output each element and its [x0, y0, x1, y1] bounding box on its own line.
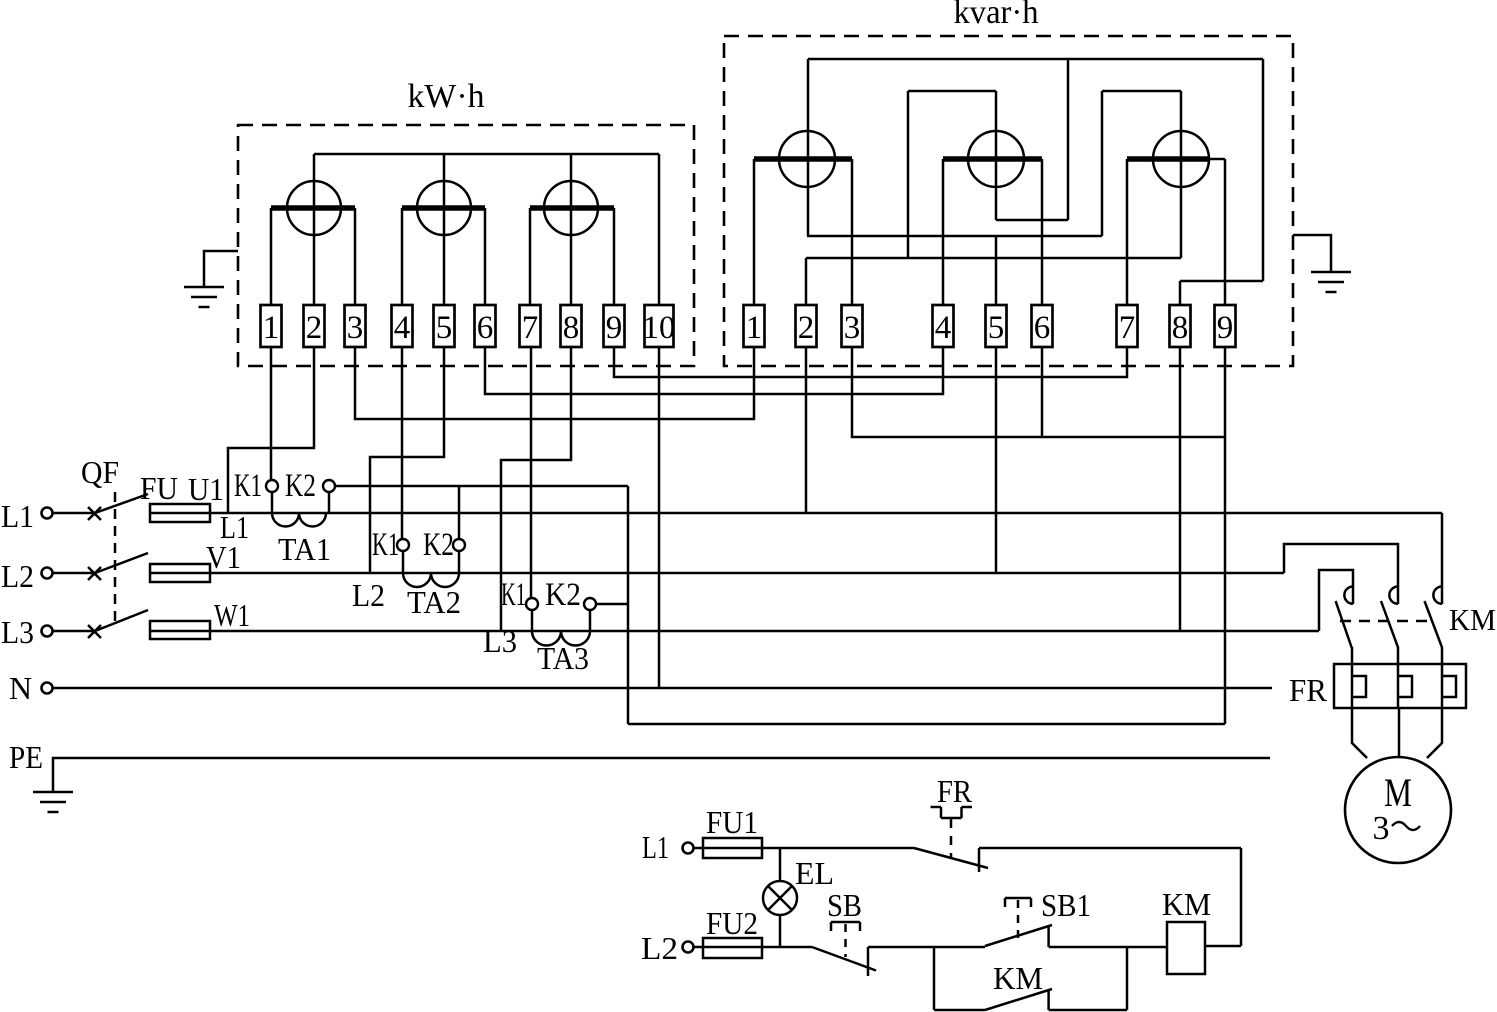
wire L2 to QF — [53, 572, 95, 575]
svg-text:N: N — [9, 670, 32, 706]
wire KM pole 3 to FR — [1441, 647, 1444, 664]
L3 line — [210, 630, 1319, 633]
svg-text:5: 5 — [988, 310, 1005, 346]
K1 label TA2 — [372, 527, 399, 563]
TA2 K2 stub to common — [458, 486, 461, 539]
kvar·h element C current lead to terminal 7 — [1126, 159, 1129, 306]
fuse FU V1 — [150, 564, 210, 582]
kW·h ground symbol — [184, 287, 224, 307]
svg-text:FR: FR — [1289, 672, 1328, 708]
kW·h element 1 current bar — [271, 205, 355, 211]
kvar·h meter title — [954, 0, 1039, 31]
svg-text:6: 6 — [477, 310, 494, 346]
kvar·h ground symbol — [1311, 272, 1351, 292]
wire kvar t3 common — [852, 347, 1225, 437]
KM aux branch left drop — [933, 947, 936, 1010]
FU label — [140, 470, 178, 506]
kvar·h element B voltage wire (bracket B through circle B) — [995, 91, 998, 220]
kW·h internal top bus wire — [314, 153, 659, 156]
control wire FU2 to SB — [762, 946, 812, 949]
kvar·h element B current lead to terminal 4 — [942, 159, 945, 306]
kW·h element 1 voltage wire (top bus to terminal 2) — [313, 154, 316, 306]
svg-text:L1: L1 — [642, 829, 669, 865]
QF pole 1 blade — [95, 494, 148, 513]
QF pole 2 cross mark — [88, 567, 101, 580]
SB1 NO contact lead — [1047, 926, 1050, 947]
svg-text:PE: PE — [9, 739, 43, 775]
svg-text:TA3: TA3 — [537, 640, 589, 676]
svg-text:SB1: SB1 — [1041, 887, 1091, 923]
wire kW t8 voltage tap to L3 — [501, 347, 571, 631]
kvar·h terminal 5 box — [986, 305, 1007, 347]
kvar·h terminal 5 riser from H1 — [995, 236, 998, 306]
K1 label TA3 — [501, 577, 526, 613]
SB1 dashed link — [1017, 900, 1020, 940]
kvar·h terminal 2 box — [796, 305, 817, 347]
K2 label TA3 — [545, 577, 581, 613]
L3 feed to KM pole 1 — [1319, 570, 1353, 631]
kvar·h bracket C riser — [1101, 91, 1104, 236]
kvar·h terminal 1 box — [744, 305, 765, 347]
kW·h element 2 voltage wire (top bus to terminal 5) — [443, 154, 446, 306]
kvar·h measuring element circle A — [779, 131, 835, 187]
control right corner drop — [1240, 848, 1243, 946]
kvar·h terminal 4 box — [933, 305, 954, 347]
svg-text:L3: L3 — [1, 614, 34, 650]
kW·h meter dashed enclosure — [238, 125, 694, 366]
KM pole 1 blade — [1336, 601, 1352, 647]
wire kW t5 voltage tap to L2 — [370, 347, 444, 573]
svg-text:FU: FU — [140, 470, 178, 506]
svg-text:9: 9 — [606, 310, 623, 346]
kvar·h case ground wire — [1293, 235, 1331, 272]
TA3 K2 stub to L3 — [589, 610, 592, 631]
W1 label — [214, 597, 250, 633]
SB1 button cap — [1005, 898, 1031, 907]
PE line label — [9, 739, 43, 775]
svg-text:KM: KM — [1449, 602, 1496, 637]
SB button cap — [831, 922, 860, 931]
EL label — [795, 855, 834, 891]
control wire SB to SB1 — [868, 946, 985, 949]
svg-text:7: 7 — [1119, 310, 1136, 346]
control wire FR to right corner — [979, 847, 1241, 850]
kW·h terminal 2 box — [304, 305, 325, 347]
kvar·h measuring element circle C — [1153, 131, 1209, 187]
FR control label — [937, 773, 973, 809]
K2 label TA1 — [285, 468, 316, 504]
wire kW t10 to N — [658, 347, 661, 688]
svg-text:3: 3 — [1373, 810, 1390, 847]
TA3 winding bumps — [532, 631, 590, 646]
TA3 K1 stub to L3 — [531, 610, 534, 631]
FR heater element 1 — [1352, 664, 1366, 708]
FR heater element 2 — [1398, 664, 1412, 708]
wire L3 to QF — [53, 630, 95, 633]
kvar·h element A current lead to terminal 3 — [851, 159, 854, 306]
TA1 K2 stub to L1 — [328, 492, 331, 513]
L1 phase label — [1, 498, 34, 534]
PE ground symbol — [33, 792, 73, 812]
kvar·h element B current bar — [943, 156, 1042, 162]
TA3 K2 wire to common drop — [596, 603, 628, 606]
svg-text:KM: KM — [1162, 886, 1211, 922]
kvar·h meter dashed enclosure — [724, 36, 1293, 366]
SB NC contact lead — [867, 947, 870, 976]
kW·h terminal 5 box — [434, 305, 455, 347]
FU2 label — [706, 905, 758, 941]
FR NC contact lead — [978, 848, 981, 872]
L1 line — [210, 512, 1442, 515]
L1 tap label — [220, 509, 249, 545]
FR heater element 3 — [1442, 664, 1456, 708]
svg-text:L1: L1 — [220, 509, 249, 545]
kW·h terminal 9 box — [604, 305, 625, 347]
svg-text:L3: L3 — [483, 623, 517, 659]
kW·h measuring element circle 1 — [287, 181, 341, 235]
wire kW t1 to TA1 K1 — [270, 347, 273, 480]
wire L1 to QF — [53, 512, 95, 515]
control L1 label — [642, 829, 669, 865]
kvar·h bracket C horizontal — [1102, 90, 1181, 93]
svg-text:1: 1 — [263, 310, 280, 346]
N source terminal — [42, 683, 53, 694]
FR main label — [1289, 672, 1328, 708]
L2 source terminal — [42, 568, 53, 579]
kvar·h terminal 2 riser — [805, 258, 808, 306]
L3 phase label — [1, 614, 34, 650]
kvar·h wire H3 riser to top bus — [1067, 59, 1070, 220]
svg-text:TA1: TA1 — [278, 531, 331, 567]
KM aux label — [993, 960, 1043, 996]
wire kvar t2 to L1 — [805, 347, 808, 513]
svg-text:M: M — [1384, 770, 1412, 815]
wire KM pole 1 to FR — [1351, 647, 1354, 664]
svg-text:9: 9 — [1217, 310, 1234, 346]
L2 line — [210, 572, 1284, 575]
kW·h element 3 voltage wire (top bus to terminal 8) — [570, 154, 573, 306]
svg-text:6: 6 — [1034, 310, 1051, 346]
kW·h terminal 4 box — [392, 305, 413, 347]
svg-text:kW·h: kW·h — [408, 78, 485, 115]
motor M circle — [1345, 757, 1451, 863]
svg-text:L2: L2 — [1, 558, 34, 594]
N line label — [9, 670, 32, 706]
wire kvar t8 to L3 — [1179, 347, 1182, 631]
wire FR to motor U — [1352, 708, 1367, 758]
kW·h case ground wire — [204, 251, 238, 287]
wire CT common return — [628, 723, 1225, 726]
motor 3-phase label — [1373, 810, 1421, 847]
fuse FU1 — [703, 838, 762, 858]
kvar·h terminal 6 box — [1032, 305, 1053, 347]
KM coil — [1167, 922, 1205, 974]
SB1 label — [1041, 887, 1091, 923]
svg-text:FU2: FU2 — [706, 905, 758, 941]
kvar·h terminal 9 box — [1215, 305, 1236, 347]
svg-text:K2: K2 — [285, 468, 316, 504]
TA2 K2 stub to L2 — [458, 551, 461, 573]
wire kvar t5 to L2 — [995, 347, 998, 573]
kvar·h bracket B horizontal — [908, 90, 996, 93]
wire kW t6 to kvar t4 — [485, 347, 943, 394]
kW·h terminal 1 box — [261, 305, 282, 347]
wire to FU1 — [694, 847, 704, 850]
kvar·h element A voltage wire (top bus through circle A) — [807, 59, 810, 236]
kvar·h element C current lead to terminal 9 — [1224, 159, 1227, 306]
wire kvar t9 common drop — [1224, 347, 1227, 724]
control L2 terminal — [683, 942, 694, 953]
kW·h element 1 current lead to terminal 1 — [270, 208, 273, 306]
kvar·h terminal 3 box — [842, 305, 863, 347]
kvar·h element C voltage wire (bracket C through circle C) — [1180, 91, 1183, 258]
KM aux bottom wire right — [1049, 1009, 1127, 1012]
kvar·h element C current bar — [1127, 156, 1225, 162]
kvar·h node wire H2 (terminal 2 to circle C bottom) — [806, 257, 1181, 260]
svg-text:K1: K1 — [501, 577, 526, 613]
svg-text:2: 2 — [306, 310, 323, 346]
FR trip dashed link — [950, 819, 953, 858]
svg-text:W1: W1 — [214, 597, 250, 633]
L2 tap label — [352, 577, 385, 613]
KM aux NO contact lead — [1047, 990, 1050, 1010]
wire kW t9 to kvar t7 — [614, 347, 1127, 377]
KM pole 2 fixed contact — [1389, 587, 1398, 604]
CT common drop wire — [627, 486, 630, 724]
kW·h terminal 8 box — [561, 305, 582, 347]
kW·h measuring element circle 3 — [544, 181, 598, 235]
SB NC contact blade — [812, 947, 876, 971]
V1 label — [206, 539, 241, 575]
svg-text:4: 4 — [935, 310, 952, 346]
svg-text:L2: L2 — [641, 930, 678, 966]
EL branch wire lower — [779, 915, 782, 947]
L1 feed to KM pole 3 — [1441, 513, 1444, 604]
kW·h element 2 current lead to terminal 4 — [401, 208, 404, 306]
TA2 winding bumps — [403, 573, 459, 587]
kW·h element 3 current bar — [530, 205, 614, 211]
svg-text:K2: K2 — [545, 577, 581, 613]
SB dashed link — [844, 924, 847, 957]
wire kvar t6 common riser — [1041, 347, 1044, 437]
wire to FU2 — [694, 946, 704, 949]
TA1 K1 terminal — [266, 480, 278, 492]
kW·h terminal 7 box — [520, 305, 541, 347]
TA3 K2 terminal — [584, 598, 596, 610]
TA1 winding bumps — [272, 513, 326, 527]
L2 phase label — [1, 558, 34, 594]
fuse FU W1 — [150, 621, 210, 639]
fuse FU U1 — [150, 504, 210, 522]
KM pole 3 fixed contact — [1433, 587, 1442, 604]
control L2 label — [641, 930, 678, 966]
wire KM pole 2 to FR — [1397, 647, 1400, 664]
motor M label — [1384, 770, 1412, 815]
KM aux NO contact blade — [985, 989, 1052, 1010]
kW·h meter title — [408, 78, 485, 115]
QF label — [81, 454, 119, 490]
svg-text:FU1: FU1 — [706, 804, 758, 840]
QF linkage dashed — [114, 492, 117, 628]
K2 label TA2 — [423, 527, 454, 563]
svg-text:K2: K2 — [423, 527, 454, 563]
kvar·h node wire H1 (circle A bottom to bracket C) — [807, 235, 1102, 238]
kvar·h top bus right drop — [1262, 59, 1265, 281]
KM coil label — [1162, 886, 1211, 922]
TA1 K2 terminal — [323, 480, 335, 492]
TA3 label — [537, 640, 589, 676]
L3 source terminal — [42, 626, 53, 637]
QF pole 1 cross mark — [88, 507, 101, 520]
wire corner to KM coil — [1205, 945, 1241, 948]
kvar·h internal top bus wire — [808, 58, 1263, 61]
TA3 K1 terminal — [526, 598, 538, 610]
FR heater box — [1334, 664, 1466, 708]
svg-text:8: 8 — [563, 310, 580, 346]
svg-text:L2: L2 — [352, 577, 385, 613]
PE line — [53, 758, 1270, 792]
svg-text:EL: EL — [795, 855, 834, 891]
KM aux branch right riser — [1126, 947, 1129, 1010]
kW·h terminal 6 box — [475, 305, 496, 347]
control L1 terminal — [683, 843, 694, 854]
QF pole 2 blade — [95, 553, 148, 573]
QF pole 3 blade — [95, 610, 148, 631]
svg-text:7: 7 — [522, 310, 539, 346]
svg-text:kvar·h: kvar·h — [954, 0, 1039, 31]
svg-text:FR: FR — [937, 773, 973, 809]
EL branch wire upper — [779, 848, 782, 881]
wire FR to motor W — [1427, 708, 1442, 758]
FR trip device — [931, 807, 973, 818]
TA2 K1 terminal — [397, 539, 409, 551]
svg-text:SB: SB — [827, 887, 862, 923]
K1 label TA1 — [234, 468, 262, 504]
wire kW t2 voltage tap to L1 — [228, 347, 314, 513]
KM linkage dashed — [1340, 620, 1430, 623]
svg-text:L1: L1 — [1, 498, 34, 534]
L2 feed to KM pole 2 — [1284, 544, 1398, 604]
KM aux bottom wire left — [934, 1009, 985, 1012]
svg-text:TA2: TA2 — [407, 584, 461, 620]
kvar·h terminal 8 riser from H4 — [1179, 281, 1182, 306]
TA1 secondary common wire — [335, 485, 628, 488]
svg-text:QF: QF — [81, 454, 119, 490]
TA1 K1 stub to L1 — [271, 492, 274, 513]
fuse FU2 — [703, 938, 762, 958]
QF pole 3 cross mark — [88, 625, 101, 638]
FR NC contact blade — [914, 848, 988, 868]
SB label — [827, 887, 862, 923]
kvar·h node wire H4 (terminal 8 to top bus right end) — [1180, 280, 1263, 283]
control wire FU1 to FR contact — [762, 847, 914, 850]
KM pole 2 blade — [1381, 601, 1398, 647]
FU1 label — [706, 804, 758, 840]
lamp EL — [763, 881, 797, 915]
kvar·h terminal 7 box — [1117, 305, 1138, 347]
wire FR to motor V — [1398, 708, 1401, 757]
wire kW t3 to kvar t1 — [355, 347, 754, 419]
KM main label — [1449, 602, 1496, 637]
wire kW t7 to TA3 K1 — [530, 347, 533, 598]
svg-text:U1: U1 — [188, 471, 224, 507]
kW·h element 3 current lead to terminal 7 — [529, 208, 532, 306]
KM pole 3 blade — [1425, 601, 1443, 647]
svg-text:10: 10 — [643, 310, 676, 346]
kvar·h terminal 8 box — [1170, 305, 1191, 347]
kW·h element 2 current lead to terminal 6 — [484, 208, 487, 306]
kvar·h measuring element circle B — [968, 131, 1024, 187]
SB1 NO contact blade — [985, 925, 1052, 946]
kW·h element 2 current bar — [402, 205, 485, 211]
kW·h terminal 10 box — [643, 305, 676, 347]
TA1 label — [278, 531, 331, 567]
control wire SB1 to KM coil — [1049, 946, 1167, 949]
svg-text:3: 3 — [347, 310, 364, 346]
svg-text:K1: K1 — [234, 468, 262, 504]
kW·h element 1 current lead to terminal 3 — [354, 208, 357, 306]
svg-text:4: 4 — [394, 310, 411, 346]
svg-text:3: 3 — [844, 310, 861, 346]
svg-text:K1: K1 — [372, 527, 399, 563]
KM pole 1 fixed contact — [1344, 587, 1353, 604]
U1 label — [188, 471, 224, 507]
svg-text:2: 2 — [798, 310, 815, 346]
svg-text:5: 5 — [436, 310, 453, 346]
kW·h terminal 10 wire from top bus — [658, 154, 661, 306]
svg-text:8: 8 — [1172, 310, 1189, 346]
svg-text:1: 1 — [746, 310, 763, 346]
L1 source terminal — [42, 508, 53, 519]
kW·h element 3 current lead to terminal 9 — [613, 208, 616, 306]
L3 tap label — [483, 623, 517, 659]
wire kW t4 to TA2 K1 — [401, 347, 404, 539]
svg-text:KM: KM — [993, 960, 1043, 996]
TA2 K2 terminal — [453, 539, 465, 551]
kW·h terminal 3 box — [345, 305, 366, 347]
kvar·h element A current lead to terminal 1 — [753, 159, 756, 306]
kvar·h node wire H3 (circle B bottom) — [996, 219, 1068, 222]
kvar·h bracket B left leg — [907, 91, 910, 258]
kW·h measuring element circle 2 — [417, 181, 471, 235]
N line — [53, 687, 1272, 690]
kvar·h element A current bar — [754, 156, 852, 162]
TA2 label — [407, 584, 461, 620]
TA2 K1 stub to L2 — [402, 551, 405, 573]
kvar·h element B current lead to terminal 6 — [1041, 159, 1044, 306]
